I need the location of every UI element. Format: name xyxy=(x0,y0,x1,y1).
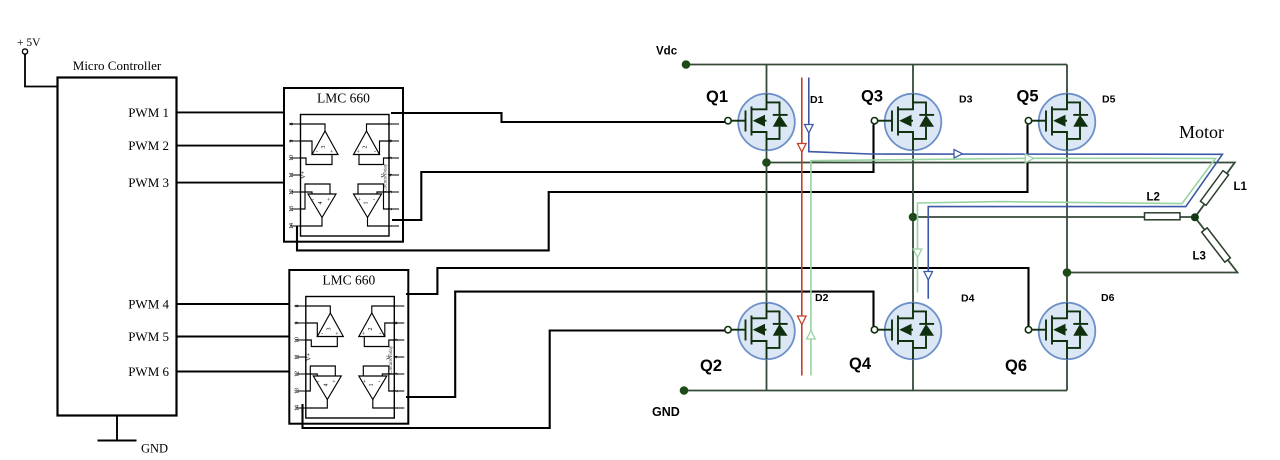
green arrow right xyxy=(1025,154,1034,163)
wire U2 pin1 to Q3 gate xyxy=(392,125,874,221)
svg-text:L3: L3 xyxy=(1193,251,1206,263)
svg-text:Q5: Q5 xyxy=(1017,88,1039,106)
transistor Q4 xyxy=(871,303,941,360)
svg-text:D4: D4 xyxy=(961,293,975,305)
+5V terminal xyxy=(22,49,27,54)
quad op-amp U3 LMC 660 xyxy=(289,270,408,424)
svg-text:D2: D2 xyxy=(815,292,829,304)
quad op-amp U2 LMC 660 xyxy=(284,88,403,242)
GND rail xyxy=(684,390,1067,392)
svg-text:Micro Controller: Micro Controller xyxy=(73,58,162,73)
svg-text:D5: D5 xyxy=(1102,94,1116,106)
blue arrow down at D1 xyxy=(805,125,814,134)
svg-text:Q2: Q2 xyxy=(700,357,722,375)
svg-text:L1: L1 xyxy=(1234,181,1248,193)
micro controller U1 xyxy=(58,78,177,416)
green arrow down xyxy=(913,249,922,258)
svg-text:Q3: Q3 xyxy=(861,88,883,106)
svg-text:GND: GND xyxy=(141,442,168,456)
transistor Q1 xyxy=(725,94,795,151)
node phase B xyxy=(909,213,918,222)
svg-text:PWM 5: PWM 5 xyxy=(128,329,169,344)
inductor L3 xyxy=(1202,228,1231,262)
ground symbol under microcontroller xyxy=(98,416,137,441)
svg-text:Motor: Motor xyxy=(1179,122,1224,142)
svg-text:PWM 4: PWM 4 xyxy=(128,297,169,312)
svg-text:Q1: Q1 xyxy=(706,88,728,106)
svg-text:D6: D6 xyxy=(1101,292,1115,304)
svg-text:PWM 1: PWM 1 xyxy=(128,105,169,120)
svg-text:L2: L2 xyxy=(1147,192,1160,204)
node GND junction xyxy=(680,386,689,395)
svg-text:Vdc: Vdc xyxy=(656,46,678,58)
node phase A xyxy=(762,158,771,167)
blue arrow right xyxy=(954,150,963,159)
svg-text:PWM 3: PWM 3 xyxy=(128,175,169,190)
svg-text:PWM 6: PWM 6 xyxy=(128,364,169,379)
svg-text:GND: GND xyxy=(652,405,680,419)
motor star node xyxy=(1191,213,1199,221)
red arrow lower xyxy=(798,316,807,325)
current path green xyxy=(811,158,1216,375)
current path red D2 xyxy=(801,78,803,376)
green arrow up xyxy=(807,331,816,340)
svg-text:PWM 2: PWM 2 xyxy=(128,138,169,153)
transistor Q6 xyxy=(1025,303,1095,360)
PWM output labels xyxy=(128,105,169,379)
wire PWM3 xyxy=(177,182,284,184)
phase C wire to motor xyxy=(1067,217,1238,272)
wire +5V to microcontroller xyxy=(25,54,58,86)
half-bridge column Q3/Q4 xyxy=(912,65,914,391)
phase A wire to motor xyxy=(767,163,1235,218)
svg-text:Q4: Q4 xyxy=(849,355,872,373)
red arrow upper xyxy=(798,144,807,153)
inductor L1 xyxy=(1200,171,1228,206)
wire PWM5 xyxy=(177,336,290,338)
Vdc rail xyxy=(686,64,1067,66)
wire PWM1 xyxy=(177,111,284,113)
half-bridge column Q1/Q2 xyxy=(766,65,768,391)
current path blue D1 xyxy=(809,78,1223,299)
wire PWM6 xyxy=(177,371,290,373)
wire U3 pin7 to Q6 gate xyxy=(406,268,1029,327)
transistor Q2 xyxy=(725,303,795,360)
blue arrow down at Q4 xyxy=(924,272,933,281)
phase B wire to motor xyxy=(913,216,1195,218)
svg-text:Q6: Q6 xyxy=(1005,357,1027,375)
half-bridge column Q5/Q6 xyxy=(1066,65,1068,391)
wire U2 pin14 to Q5 gate xyxy=(297,125,1028,251)
wire PWM4 xyxy=(177,303,290,305)
svg-text:D1: D1 xyxy=(810,94,824,106)
inductor L2 xyxy=(1145,213,1181,220)
wire U2 pin7 to Q1 gate xyxy=(391,113,725,122)
wire U3 pin2 to Q4 gate xyxy=(406,292,874,397)
wire U3 pin14 to Q2 gate xyxy=(303,331,726,429)
node phase C xyxy=(1063,268,1072,277)
transistor Q3 xyxy=(871,94,941,151)
transistor Q5 xyxy=(1025,94,1095,151)
wire PWM2 xyxy=(177,145,284,147)
svg-text:+ 5V: + 5V xyxy=(17,37,41,49)
node Vdc junction xyxy=(682,60,691,69)
svg-text:D3: D3 xyxy=(959,94,973,106)
